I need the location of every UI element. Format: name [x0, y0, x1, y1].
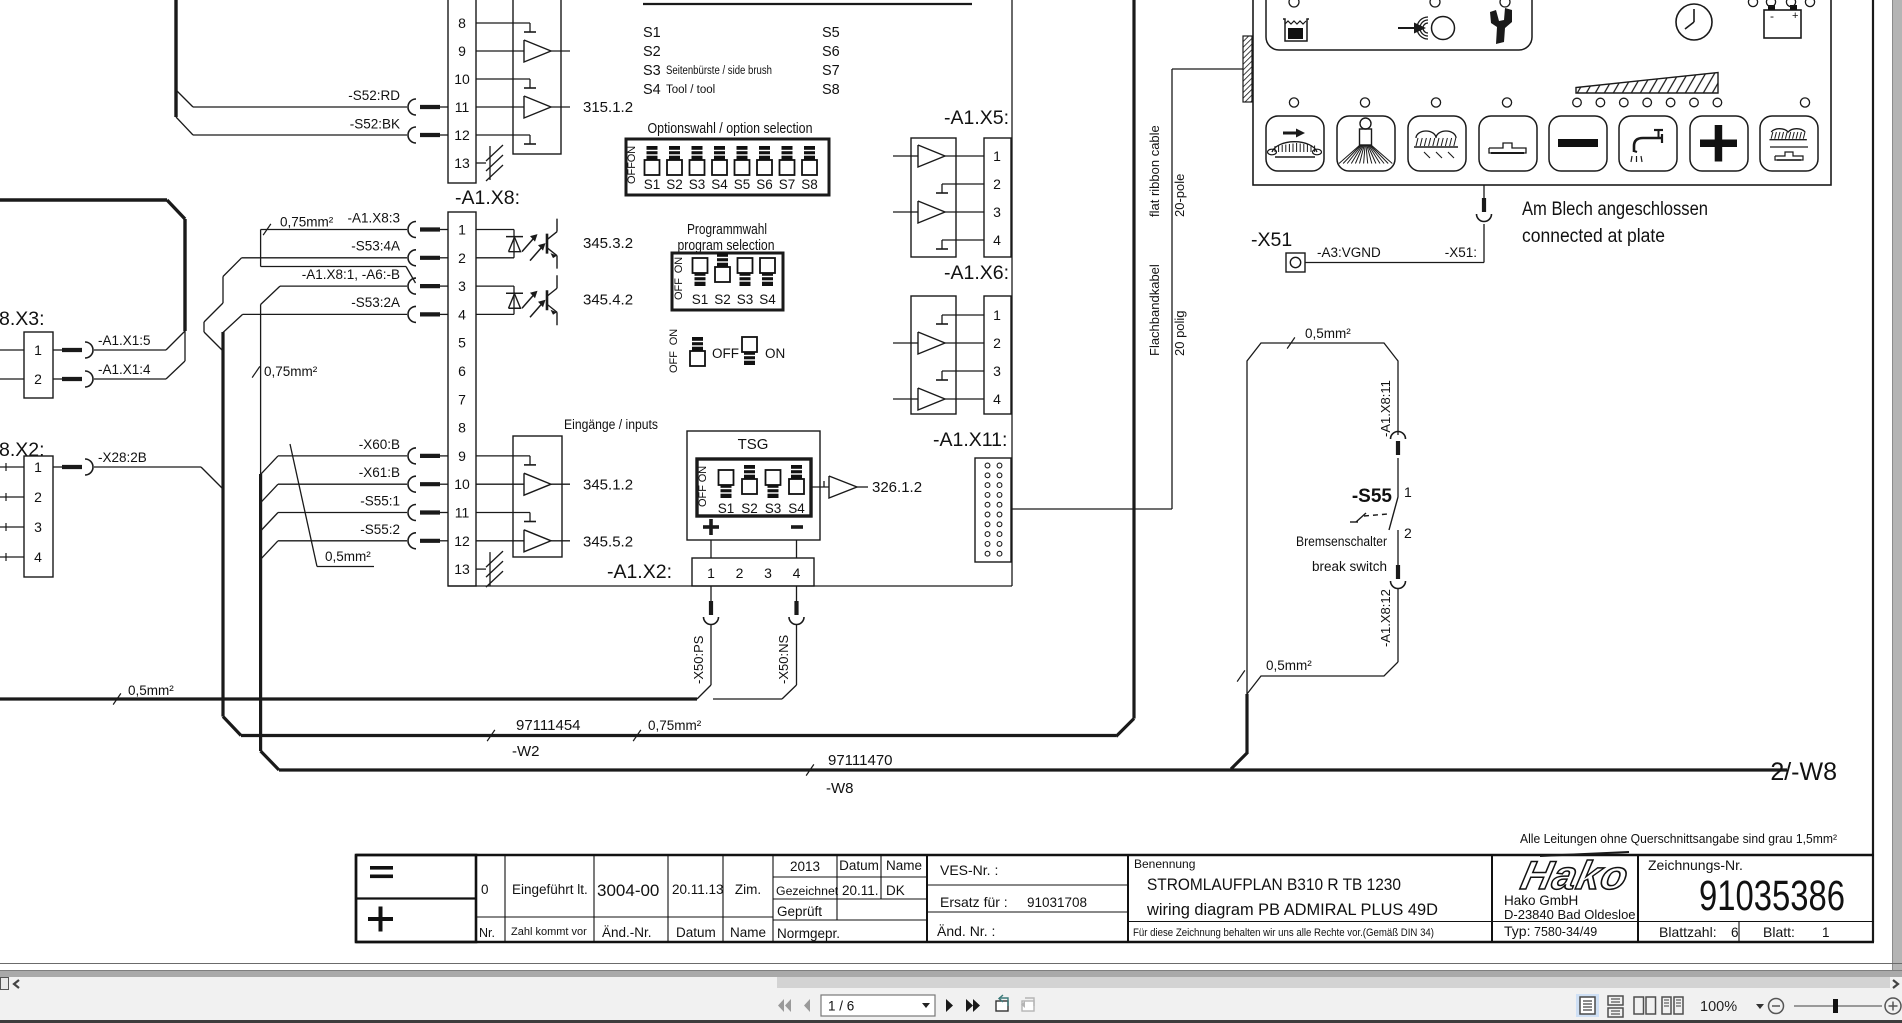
svg-text:1: 1	[1404, 484, 1412, 500]
svg-text:-S53:2A: -S53:2A	[351, 295, 400, 310]
svg-text:Alle Leitungen ohne Querschnit: Alle Leitungen ohne Querschnittsangabe s…	[1520, 831, 1838, 846]
svg-text:flat ribbon cable: flat ribbon cable	[1147, 125, 1162, 217]
svg-text:Gezeichnet: Gezeichnet	[776, 884, 839, 898]
svg-text:S3: S3	[737, 292, 754, 307]
svg-text:Seitenbürste / side brush: Seitenbürste / side brush	[666, 65, 772, 77]
svg-text:-: -	[1770, 9, 1774, 23]
svg-text:8.X2:: 8.X2:	[0, 439, 45, 461]
svg-text:8: 8	[458, 420, 466, 436]
svg-text:Eingeführt lt.: Eingeführt lt.	[512, 882, 588, 897]
svg-text:Optionswahl / option selection: Optionswahl / option selection	[648, 120, 813, 137]
svg-text:3004-00: 3004-00	[597, 881, 659, 900]
svg-text:S3: S3	[765, 501, 782, 516]
svg-text:-X61:B: -X61:B	[359, 465, 400, 480]
svg-text:S6: S6	[822, 44, 840, 60]
svg-text:10: 10	[454, 71, 470, 87]
svg-text:13: 13	[454, 561, 470, 577]
svg-text:TSG: TSG	[738, 436, 769, 453]
svg-text:-A1.X8:: -A1.X8:	[455, 187, 520, 209]
svg-text:2: 2	[736, 565, 744, 581]
svg-text:1: 1	[34, 342, 42, 358]
svg-text:345.1.2: 345.1.2	[583, 477, 633, 494]
svg-text:91035386: 91035386	[1699, 872, 1845, 920]
svg-text:1: 1	[34, 459, 42, 475]
svg-text:1: 1	[458, 222, 466, 238]
svg-text:wiring diagram PB ADMIRAL PLU: wiring diagram PB ADMIRAL PLUS 49D	[1146, 900, 1438, 919]
svg-text:1: 1	[1822, 925, 1830, 940]
svg-text:326.1.2: 326.1.2	[872, 479, 922, 496]
svg-text:0,75mm²: 0,75mm²	[648, 718, 702, 733]
svg-text:1 / 6: 1 / 6	[828, 999, 854, 1014]
svg-text:Datum: Datum	[839, 858, 879, 873]
svg-text:-X50:PS: -X50:PS	[691, 635, 706, 684]
svg-text:S5: S5	[822, 25, 840, 41]
svg-text:S4: S4	[711, 177, 728, 192]
svg-text:Flachbandkabel: Flachbandkabel	[1147, 264, 1162, 356]
svg-text:Änd. Nr. :: Änd. Nr. :	[937, 923, 995, 939]
svg-text:97111454: 97111454	[516, 717, 581, 734]
svg-text:-X51: -X51	[1251, 229, 1292, 251]
svg-text:Hako: Hako	[1517, 852, 1633, 897]
svg-text:ON: ON	[668, 329, 680, 346]
svg-text:+: +	[1792, 10, 1798, 22]
svg-text:-A1.X2:: -A1.X2:	[607, 561, 672, 583]
svg-text:Tool / tool: Tool / tool	[666, 84, 715, 96]
svg-text:9: 9	[458, 448, 466, 464]
svg-text:1: 1	[993, 307, 1001, 323]
svg-text:DK: DK	[886, 883, 905, 898]
svg-text:Programmwahl: Programmwahl	[687, 221, 767, 238]
svg-text:-W2: -W2	[512, 743, 540, 760]
svg-text:Name: Name	[730, 925, 766, 940]
svg-text:S5: S5	[734, 177, 751, 192]
svg-text:2013: 2013	[790, 859, 820, 874]
svg-text:20-pole: 20-pole	[1172, 174, 1187, 217]
svg-text:315.1.2: 315.1.2	[583, 99, 633, 116]
svg-text:Eingänge / inputs: Eingänge / inputs	[564, 417, 658, 432]
svg-text:OFF: OFF	[712, 346, 739, 361]
svg-text:S7: S7	[779, 177, 796, 192]
svg-text:6: 6	[1731, 925, 1739, 940]
svg-text:program selection: program selection	[678, 237, 775, 254]
svg-text:6: 6	[458, 363, 466, 379]
svg-text:Benennung: Benennung	[1134, 857, 1195, 871]
svg-text:1: 1	[993, 148, 1001, 164]
svg-text:-X28:2B: -X28:2B	[98, 450, 147, 465]
svg-text:0,75mm²: 0,75mm²	[264, 364, 318, 379]
svg-text:11: 11	[455, 505, 470, 521]
svg-text:-S53:4A: -S53:4A	[351, 239, 400, 254]
svg-text:-X60:B: -X60:B	[359, 437, 400, 452]
svg-text:Datum: Datum	[676, 925, 716, 940]
svg-text:0,5mm²: 0,5mm²	[1305, 326, 1351, 341]
svg-text:OFF: OFF	[697, 485, 709, 507]
svg-text:0,75mm²: 0,75mm²	[280, 215, 334, 230]
svg-text:4: 4	[993, 391, 1001, 407]
svg-text:3: 3	[458, 278, 466, 294]
svg-text:-A1.X8:12: -A1.X8:12	[1378, 589, 1393, 647]
svg-text:Bremsenschalter: Bremsenschalter	[1296, 534, 1387, 549]
svg-text:Ersatz für :: Ersatz für :	[940, 894, 1008, 910]
svg-text:S7: S7	[822, 63, 840, 79]
svg-text:4: 4	[34, 549, 42, 565]
svg-text:STROMLAUFPLAN B310 R TB 1230: STROMLAUFPLAN B310 R TB 1230	[1147, 875, 1401, 894]
svg-text:9: 9	[458, 43, 466, 59]
svg-text:-A1.X1:4: -A1.X1:4	[98, 362, 151, 377]
svg-text:2: 2	[993, 335, 1001, 351]
svg-text:20 polig: 20 polig	[1172, 310, 1187, 356]
svg-text:Hako GmbH: Hako GmbH	[1504, 893, 1578, 908]
svg-text:S6: S6	[756, 177, 773, 192]
svg-text:S2: S2	[643, 44, 661, 60]
svg-text:3: 3	[993, 363, 1001, 379]
svg-text:Normgepr.: Normgepr.	[777, 926, 840, 941]
svg-text:connected at plate: connected at plate	[1522, 226, 1665, 247]
svg-text:0,5mm²: 0,5mm²	[1266, 658, 1312, 673]
svg-text:-A1.X6:: -A1.X6:	[944, 262, 1009, 284]
svg-text:345.3.2: 345.3.2	[583, 235, 633, 252]
svg-text:-S55:1: -S55:1	[360, 494, 400, 509]
svg-text:-W8: -W8	[826, 780, 854, 797]
svg-text:S4: S4	[643, 82, 661, 98]
svg-text:S1: S1	[692, 292, 709, 307]
svg-text:-X51:: -X51:	[1445, 245, 1477, 260]
svg-text:2: 2	[34, 371, 42, 387]
svg-text:-S52:BK: -S52:BK	[350, 117, 400, 132]
svg-text:OFF: OFF	[626, 162, 638, 184]
svg-text:1: 1	[707, 565, 715, 581]
svg-text:2: 2	[1404, 525, 1412, 541]
svg-text:VES-Nr. :: VES-Nr. :	[940, 862, 998, 878]
svg-text:Am Blech angeschlossen: Am Blech angeschlossen	[1522, 199, 1708, 220]
svg-text:-X50:NS: -X50:NS	[776, 635, 791, 684]
svg-text:Änd.-Nr.: Änd.-Nr.	[602, 925, 652, 940]
svg-text:20.11.13: 20.11.13	[672, 882, 724, 897]
svg-text:13: 13	[454, 155, 470, 171]
svg-text:91031708: 91031708	[1027, 895, 1087, 910]
svg-text:-A1.X5:: -A1.X5:	[944, 107, 1009, 129]
svg-text:12: 12	[454, 127, 470, 143]
svg-text:7580-34/49: 7580-34/49	[1534, 925, 1597, 939]
svg-text:-A1.X8:11: -A1.X8:11	[1378, 380, 1393, 437]
svg-text:7: 7	[458, 391, 466, 407]
svg-text:-A3:VGND: -A3:VGND	[1317, 245, 1381, 260]
svg-text:-A1.X8:1, -A6:-B: -A1.X8:1, -A6:-B	[302, 267, 400, 282]
svg-text:2: 2	[34, 489, 42, 505]
svg-text:10: 10	[454, 476, 470, 492]
svg-text:4: 4	[993, 232, 1001, 248]
svg-text:S4: S4	[759, 292, 776, 307]
svg-text:Zeichnungs-Nr.: Zeichnungs-Nr.	[1648, 857, 1743, 873]
svg-text:3: 3	[34, 519, 42, 535]
svg-text:S8: S8	[822, 82, 840, 98]
svg-text:ON: ON	[673, 257, 685, 274]
svg-text:Blatt:: Blatt:	[1763, 924, 1795, 940]
svg-text:0,5mm²: 0,5mm²	[128, 683, 174, 698]
svg-text:-S55: -S55	[1352, 486, 1393, 507]
svg-text:20.11.: 20.11.	[842, 883, 879, 898]
svg-text:-A1.X8:3: -A1.X8:3	[347, 211, 400, 226]
svg-text:Blattzahl:: Blattzahl:	[1659, 924, 1717, 940]
svg-text:OFF: OFF	[673, 278, 685, 300]
svg-text:S1: S1	[643, 25, 661, 41]
svg-text:S1: S1	[718, 501, 735, 516]
svg-text:0,5mm²: 0,5mm²	[325, 549, 371, 564]
svg-text:3: 3	[764, 565, 772, 581]
svg-text:break switch: break switch	[1312, 559, 1387, 574]
svg-text:ON: ON	[765, 346, 785, 361]
svg-text:OFF: OFF	[668, 351, 680, 373]
svg-text:S2: S2	[714, 292, 731, 307]
svg-text:S2: S2	[741, 501, 758, 516]
svg-text:ON: ON	[626, 146, 638, 163]
svg-text:S3: S3	[689, 177, 706, 192]
svg-text:D-23840 Bad Oldesloe: D-23840 Bad Oldesloe	[1504, 907, 1636, 922]
svg-text:-S52:RD: -S52:RD	[348, 88, 400, 103]
svg-text:Typ:: Typ:	[1504, 923, 1530, 939]
svg-text:8.X3:: 8.X3:	[0, 308, 45, 330]
svg-text:8: 8	[458, 15, 466, 31]
svg-text:S8: S8	[801, 177, 818, 192]
svg-text:2: 2	[993, 176, 1001, 192]
svg-text:2: 2	[458, 250, 466, 266]
svg-text:345.5.2: 345.5.2	[583, 533, 633, 550]
svg-text:5: 5	[458, 335, 466, 351]
svg-text:4: 4	[793, 565, 801, 581]
svg-text:Name: Name	[886, 858, 922, 873]
svg-text:S3: S3	[643, 63, 661, 79]
svg-text:97111470: 97111470	[828, 752, 893, 769]
svg-text:345.4.2: 345.4.2	[583, 292, 633, 309]
svg-text:2/-W8: 2/-W8	[1770, 758, 1837, 786]
svg-text:Zahl kommt vor: Zahl kommt vor	[511, 926, 587, 938]
svg-text:Für diese Zeichnung behalten w: Für diese Zeichnung behalten wir uns all…	[1133, 927, 1434, 939]
svg-text:-A1.X11:: -A1.X11:	[933, 429, 1007, 451]
svg-text:-A1.X1:5: -A1.X1:5	[98, 333, 151, 348]
svg-text:Nr.: Nr.	[479, 926, 495, 940]
svg-text:0: 0	[481, 882, 489, 897]
svg-text:11: 11	[455, 99, 470, 115]
svg-text:S4: S4	[788, 501, 805, 516]
svg-text:Zim.: Zim.	[735, 882, 761, 897]
svg-text:12: 12	[454, 533, 470, 549]
svg-text:3: 3	[993, 204, 1001, 220]
svg-text:Geprüft: Geprüft	[777, 904, 822, 919]
svg-text:-S55:2: -S55:2	[360, 522, 400, 537]
svg-text:S2: S2	[666, 177, 683, 192]
svg-text:4: 4	[458, 306, 466, 322]
svg-text:ON: ON	[697, 466, 709, 483]
svg-text:100%: 100%	[1700, 999, 1737, 1015]
svg-text:S1: S1	[644, 177, 661, 192]
